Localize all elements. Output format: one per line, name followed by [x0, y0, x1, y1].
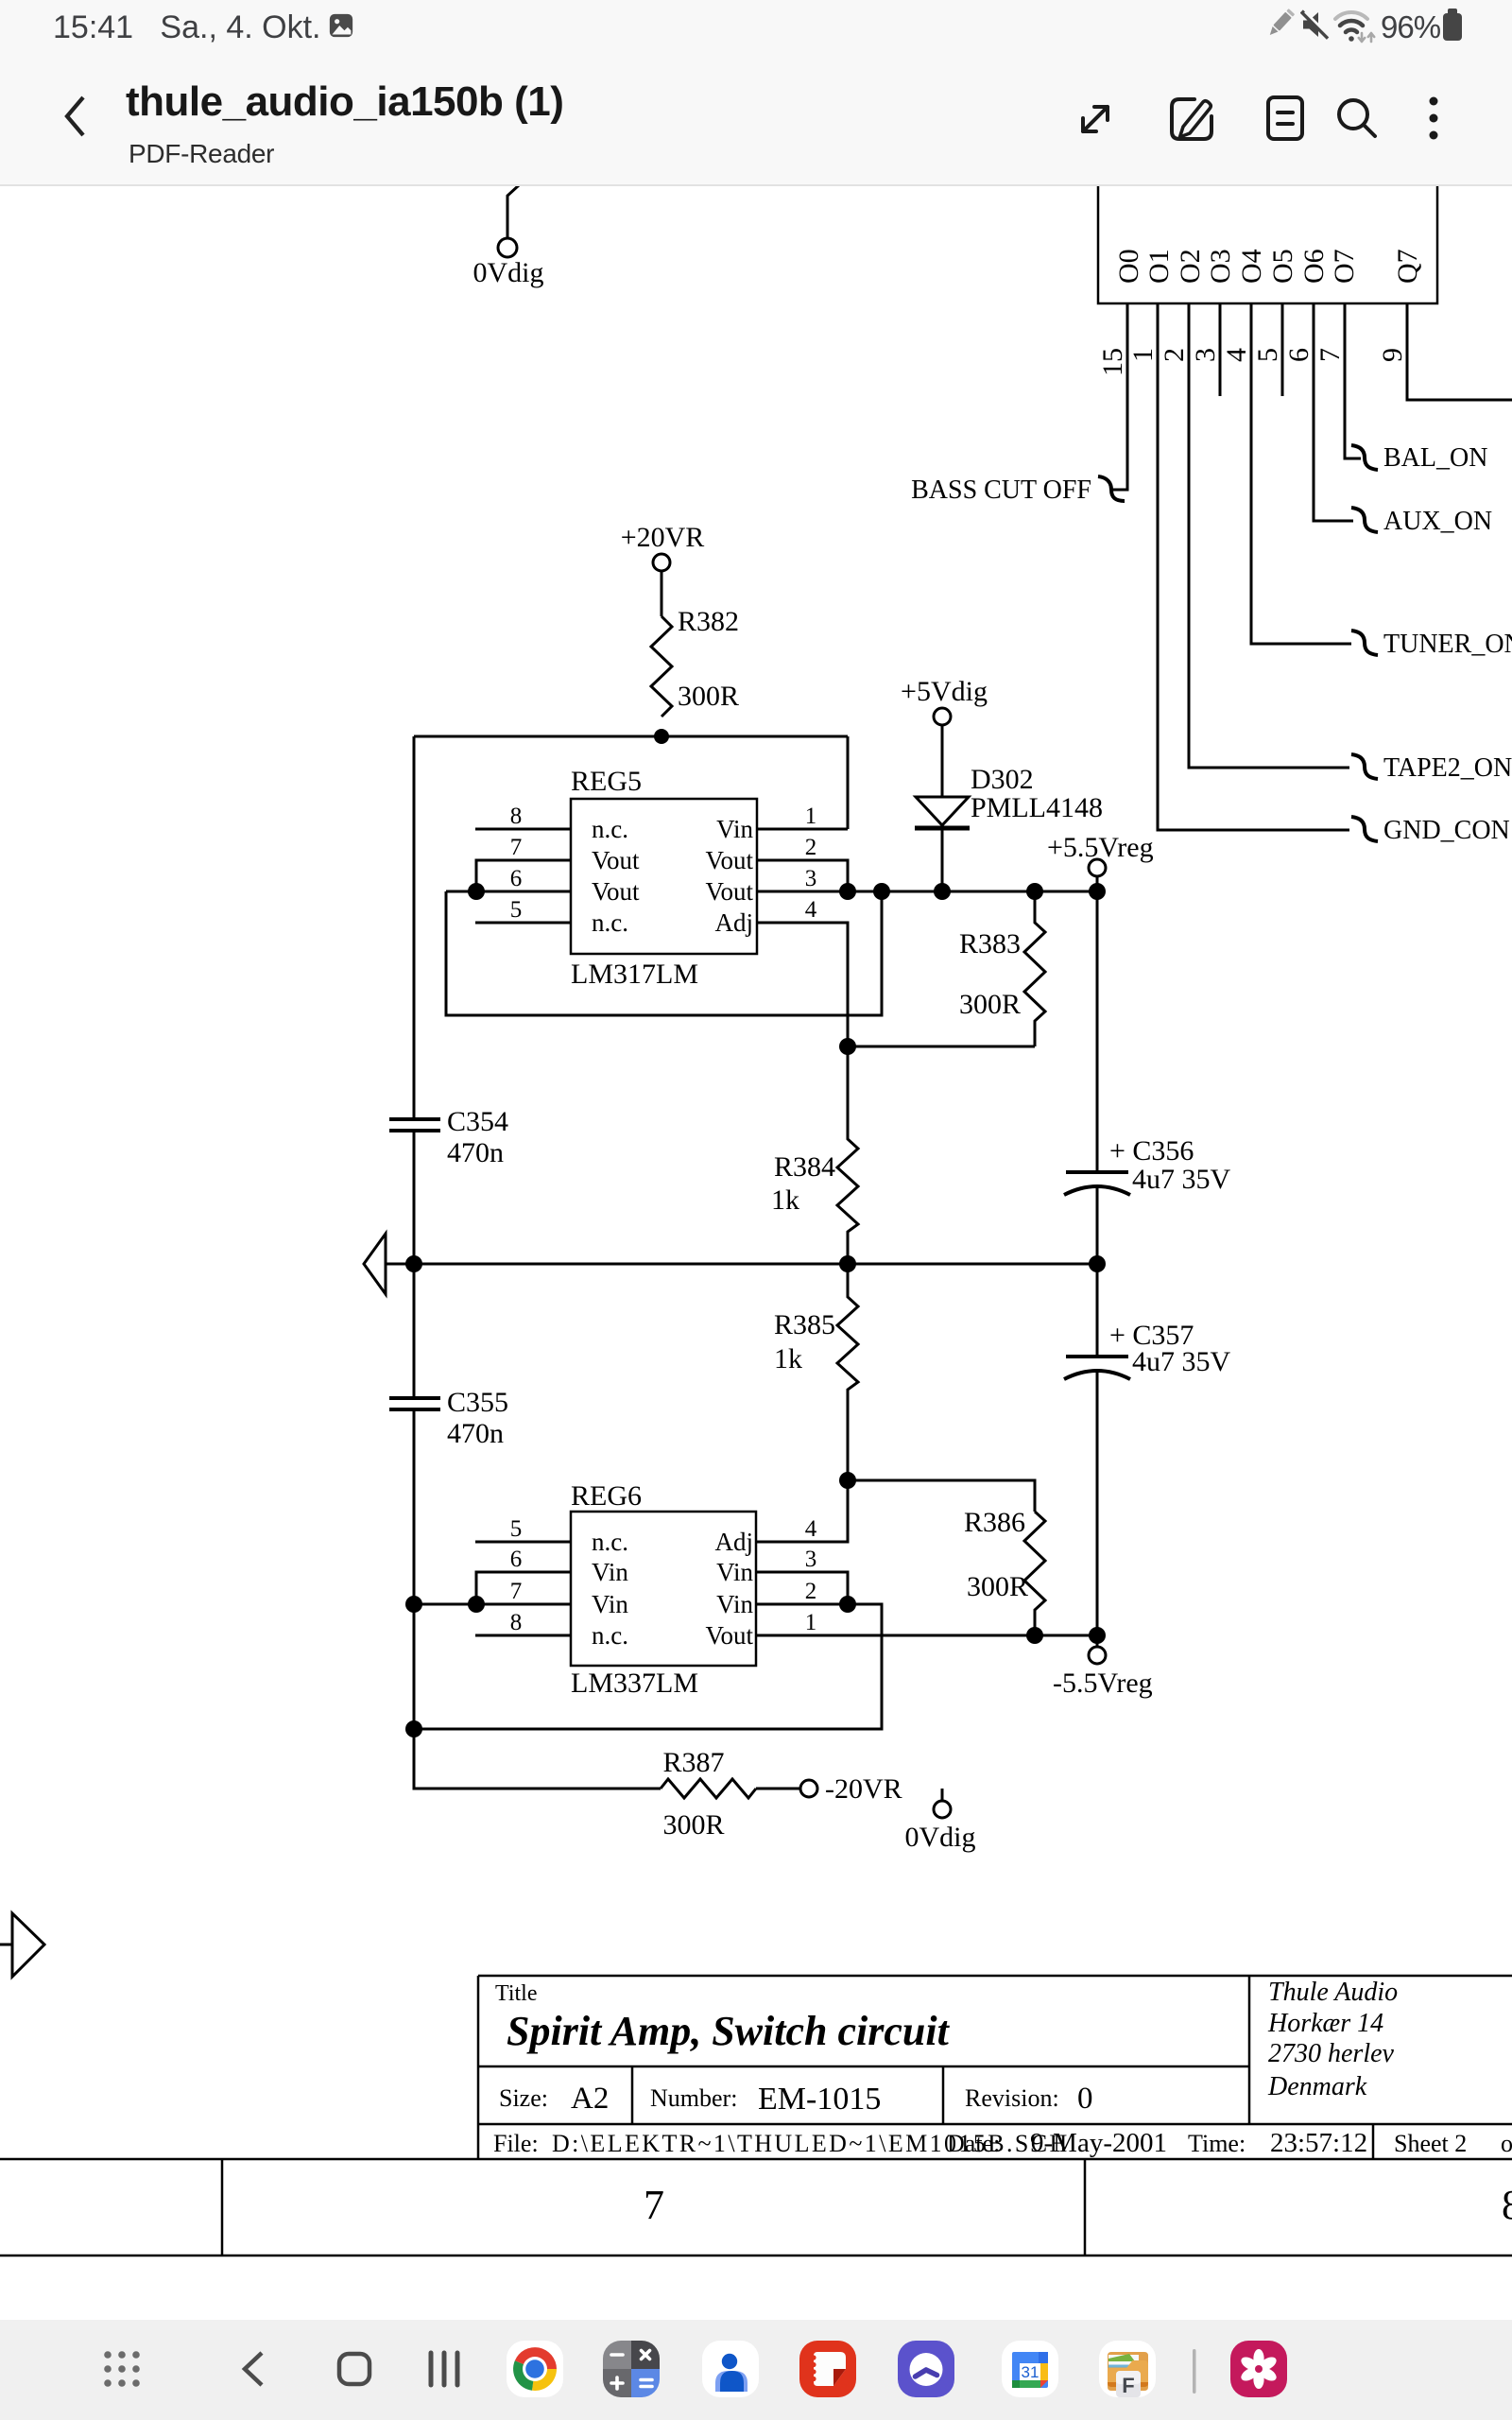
REG5 pin7 wire	[476, 860, 571, 891]
wire Q7 pin9	[1407, 303, 1512, 400]
svg-text:R384: R384	[774, 1151, 835, 1183]
label C356	[1109, 1135, 1231, 1195]
svg-text:D302: D302	[971, 764, 1034, 795]
svg-text:F: F	[1122, 2374, 1134, 2397]
svg-text:R383: R383	[959, 928, 1021, 959]
terminal +5Vdig	[934, 708, 951, 797]
svg-text:5: 5	[510, 1516, 523, 1542]
squiggle BASS CUT OFF	[1098, 476, 1125, 501]
squiggle AUX_ON	[1351, 508, 1378, 532]
nav home	[339, 2354, 369, 2384]
label R382	[678, 606, 739, 712]
terminal -20VR	[756, 1780, 817, 1797]
back chevron	[55, 90, 96, 143]
document icon	[1268, 97, 1302, 139]
resistor R384 1k	[837, 1046, 858, 1264]
ground bus	[405, 1255, 1106, 1272]
svg-text:Horkær 14: Horkær 14	[1267, 2009, 1383, 2038]
svg-text:31: 31	[1022, 2363, 1039, 2381]
svg-text:4u7 35V: 4u7 35V	[1132, 1164, 1231, 1195]
IC REG5 box	[571, 799, 757, 954]
svg-text:2: 2	[805, 835, 817, 860]
search icon	[1339, 100, 1375, 136]
app Contacts	[702, 2341, 759, 2397]
svg-text:300R: 300R	[959, 989, 1021, 1020]
terminal 0Vdig (bottom)	[934, 1789, 951, 1818]
company address	[1267, 1978, 1398, 2101]
app My Files	[1099, 2341, 1156, 2397]
REG5 pin1 Vin stub	[757, 828, 848, 831]
svg-text:Vin: Vin	[592, 1590, 628, 1618]
svg-text:BASS CUT OFF: BASS CUT OFF	[911, 475, 1091, 505]
capacitor C357 4u7 35V	[1064, 1357, 1130, 1635]
REG6 pin7 wire	[414, 1603, 571, 1606]
svg-text:n.c.: n.c.	[592, 1528, 628, 1556]
svg-text:+20VR: +20VR	[621, 522, 705, 553]
squiggle BAL_ON	[1351, 445, 1378, 470]
label C354	[447, 1106, 508, 1168]
svg-text:7: 7	[1314, 348, 1346, 362]
label C355	[447, 1387, 508, 1449]
svg-text:0Vdig: 0Vdig	[473, 257, 544, 288]
svg-text:1: 1	[805, 804, 817, 829]
svg-text:O3: O3	[1205, 249, 1236, 284]
svg-text:0Vdig: 0Vdig	[905, 1822, 976, 1853]
svg-text:A2: A2	[571, 2082, 609, 2116]
svg-text:LM337LM: LM337LM	[571, 1668, 698, 1699]
svg-text:Thule Audio: Thule Audio	[1268, 1978, 1398, 2007]
svg-text:Time:: Time:	[1188, 2130, 1246, 2157]
wire left rail lower	[413, 1409, 416, 1789]
status wifi icon	[1332, 7, 1376, 46]
node REG6 Adj junction	[839, 1472, 1035, 1512]
squiggle TUNER_ON	[1351, 631, 1378, 655]
svg-text:470n: 470n	[447, 1137, 504, 1168]
separator	[1193, 2349, 1196, 2394]
svg-text:3: 3	[1190, 348, 1221, 362]
app drawer dots	[104, 2351, 140, 2387]
svg-text:Adj: Adj	[715, 908, 754, 937]
svg-text:Vout: Vout	[592, 846, 640, 874]
terminal 0Vdig (top)	[498, 185, 519, 257]
svg-text:9-May-2001: 9-May-2001	[1030, 2128, 1167, 2158]
wire +20V to Vin pin1	[847, 736, 850, 829]
svg-text:1: 1	[805, 1610, 817, 1635]
svg-text:9: 9	[1377, 348, 1408, 362]
svg-text:1k: 1k	[774, 1343, 802, 1374]
svg-text:-20VR: -20VR	[825, 1773, 902, 1805]
svg-text:R385: R385	[774, 1309, 835, 1340]
svg-text:5: 5	[510, 897, 523, 923]
app Calculator	[603, 2341, 660, 2397]
svg-text:Vout: Vout	[705, 1621, 753, 1650]
app Samsung Internet	[898, 2341, 954, 2397]
wire O3 pin3 stub	[1219, 303, 1222, 396]
status battery icon	[1441, 9, 1464, 43]
svg-text:2730 herlev: 2730 herlev	[1268, 2039, 1395, 2068]
pin labels O0-O7 Q7	[1113, 249, 1423, 284]
svg-text:Vout: Vout	[705, 877, 753, 906]
svg-text:0: 0	[1077, 2082, 1093, 2116]
REG5 pin5 stub	[475, 922, 571, 925]
label D302 PMLL4148	[971, 764, 1103, 823]
pin numbers 15 1-7 9	[1097, 348, 1408, 376]
svg-text:R386: R386	[964, 1507, 1025, 1538]
REG6 pin4 Adj wire	[757, 1480, 848, 1542]
wire +5.5V rail down	[1096, 891, 1099, 1172]
REG5 pin numbers	[510, 804, 817, 923]
svg-text:1k: 1k	[771, 1184, 799, 1216]
svg-text:TUNER_ON: TUNER_ON	[1383, 630, 1512, 659]
app Google Calendar	[1002, 2341, 1058, 2397]
svg-text:O7: O7	[1329, 249, 1360, 284]
REG6 pin numbers	[510, 1516, 817, 1635]
REG6 pin3 Vin wire	[757, 1572, 848, 1604]
svg-text:O0: O0	[1113, 249, 1144, 284]
label R384	[771, 1151, 835, 1216]
REG5 pin2 Vout wire	[757, 860, 848, 891]
node +20V bus	[414, 729, 848, 744]
svg-text:4: 4	[805, 1516, 817, 1542]
svg-text:8: 8	[510, 1610, 523, 1635]
svg-text:PMLL4148: PMLL4148	[971, 792, 1103, 823]
svg-text:Date:: Date:	[947, 2130, 1000, 2157]
svg-text:4: 4	[805, 897, 817, 923]
svg-text:7: 7	[510, 835, 523, 860]
capacitor C354 470n	[389, 1119, 440, 1131]
status pen icon	[1263, 9, 1296, 41]
svg-text:EM-1015: EM-1015	[758, 2082, 881, 2117]
terminal +5.5Vreg	[1089, 859, 1106, 891]
svg-text:Number:: Number:	[650, 2084, 737, 2112]
diode D302 PMLL4148	[915, 797, 970, 891]
resistor R386 300R	[1024, 1512, 1045, 1635]
svg-text:7: 7	[644, 2182, 664, 2228]
REG6 pin1 Vout wire	[757, 1627, 1106, 1644]
svg-text:TAPE2_ON: TAPE2_ON	[1383, 753, 1512, 783]
label R387	[662, 1747, 724, 1841]
REG5 pin8 stub	[475, 828, 571, 831]
header action icons	[1068, 90, 1465, 147]
svg-text:R382: R382	[678, 606, 739, 637]
wire O2 pin2	[1189, 303, 1349, 768]
app Gallery	[1230, 2341, 1287, 2397]
label C357	[1109, 1320, 1231, 1377]
nav recents	[431, 2353, 457, 2385]
IC U3 box	[1098, 142, 1437, 303]
ground arrow	[364, 1234, 414, 1294]
resistor R387 300R	[661, 1779, 756, 1798]
svg-text:C355: C355	[447, 1387, 508, 1418]
svg-text:LM317LM: LM317LM	[571, 959, 698, 990]
svg-text:Vin: Vin	[716, 1590, 753, 1618]
svg-text:8: 8	[1502, 2182, 1512, 2228]
svg-text:File:: File:	[493, 2130, 539, 2157]
svg-text:Vout: Vout	[592, 877, 640, 906]
capacitor C356 4u7 35V	[1064, 1172, 1130, 1264]
title block text	[493, 1978, 1512, 2228]
squiggle GND_CON	[1351, 817, 1378, 841]
svg-text:3: 3	[805, 866, 817, 891]
net arrow bottom-left	[0, 1913, 44, 1977]
svg-text:300R: 300R	[662, 1809, 724, 1841]
svg-text:O6: O6	[1298, 249, 1330, 284]
title block frame	[0, 1976, 1512, 2256]
svg-text:7: 7	[510, 1579, 523, 1604]
squiggle TAPE2_ON	[1351, 754, 1378, 779]
wire -5.5V rail	[1096, 1264, 1099, 1357]
svg-text:O4: O4	[1236, 249, 1267, 284]
svg-text:Vout: Vout	[705, 846, 753, 874]
svg-text:R387: R387	[662, 1747, 724, 1778]
wire O0 pin15	[1111, 303, 1127, 490]
svg-text:n.c.: n.c.	[592, 815, 628, 843]
svg-text:Vin: Vin	[592, 1558, 628, 1586]
svg-text:23:57:12: 23:57:12	[1270, 2128, 1367, 2158]
label R385	[774, 1309, 835, 1374]
REG5 pin names	[592, 815, 753, 937]
app Chrome	[507, 2341, 563, 2397]
REG6 pin names	[592, 1528, 753, 1650]
svg-text:+ C356: + C356	[1109, 1135, 1194, 1167]
svg-text:6: 6	[510, 1547, 523, 1572]
REG6 pin6 wire	[476, 1572, 571, 1604]
wire left rail mid	[413, 1131, 416, 1398]
svg-text:Vin: Vin	[716, 815, 753, 843]
node REG5 Vout left	[468, 883, 485, 900]
svg-text:2: 2	[1159, 348, 1190, 362]
REG5 pin4 Adj wire	[757, 923, 848, 1046]
wire to R387	[414, 1729, 661, 1789]
node Adj junction	[839, 1038, 1035, 1055]
svg-text:O2: O2	[1175, 249, 1206, 284]
wire REG5 feedback loop	[446, 891, 882, 1015]
svg-text:+5Vdig: +5Vdig	[901, 676, 988, 707]
svg-text:6: 6	[510, 866, 523, 891]
wire O7 pin7	[1345, 303, 1361, 458]
wire O4 pin4	[1251, 303, 1351, 644]
svg-text:Sheet 2: Sheet 2	[1394, 2130, 1467, 2157]
terminal -5.5Vreg	[1089, 1635, 1106, 1664]
svg-text:+5.5Vreg: +5.5Vreg	[1047, 832, 1154, 863]
svg-text:O5: O5	[1267, 249, 1298, 284]
svg-text:n.c.: n.c.	[592, 908, 628, 937]
svg-text:15: 15	[1097, 348, 1128, 376]
svg-text:8: 8	[510, 804, 523, 829]
svg-text:GND_CON: GND_CON	[1383, 816, 1510, 845]
resistor R385 1k	[837, 1264, 858, 1480]
svg-text:O1: O1	[1143, 249, 1175, 284]
svg-text:Vin: Vin	[716, 1558, 753, 1586]
node REG6 Vin left	[405, 1596, 485, 1613]
wire O5 pin5 stub	[1281, 303, 1284, 396]
IC REG6 box	[571, 1512, 756, 1666]
resistor R383 300R	[1024, 891, 1045, 1046]
svg-text:4u7 35V: 4u7 35V	[1132, 1346, 1231, 1377]
expand icon	[1083, 107, 1108, 131]
app Samsung Notes	[799, 2341, 856, 2397]
svg-text:Adj: Adj	[715, 1528, 754, 1556]
svg-text:4: 4	[1221, 348, 1252, 362]
status mute icon	[1300, 9, 1331, 40]
nav back	[245, 2353, 262, 2385]
svg-text:of: of	[1501, 2130, 1512, 2157]
wire O1 pin1	[1158, 303, 1349, 830]
svg-text:Spirit Amp, Switch circuit: Spirit Amp, Switch circuit	[507, 2008, 951, 2054]
svg-text:5: 5	[1252, 348, 1283, 362]
svg-text:6: 6	[1283, 348, 1314, 362]
REG5 pin6 wire	[446, 890, 571, 893]
wire O6 pin6	[1314, 303, 1353, 521]
svg-text:3: 3	[805, 1547, 817, 1572]
+5.5V output bus	[757, 890, 1097, 893]
terminal +20VR	[653, 554, 670, 616]
svg-text:2: 2	[805, 1579, 817, 1604]
label R386	[964, 1507, 1028, 1602]
svg-text:Title: Title	[495, 1981, 537, 2006]
svg-text:C354: C354	[447, 1106, 508, 1137]
svg-text:Size:: Size:	[499, 2084, 548, 2112]
REG6 pin5 stub	[475, 1541, 571, 1544]
svg-text:1: 1	[1127, 348, 1159, 362]
svg-text:REG6: REG6	[571, 1480, 642, 1512]
svg-text:Revision:: Revision:	[965, 2084, 1059, 2112]
label R383	[959, 928, 1021, 1020]
svg-text:300R: 300R	[678, 681, 739, 712]
REG6 pin8 stub	[475, 1634, 571, 1637]
capacitor C355 470n	[389, 1398, 440, 1409]
edit icon	[1172, 99, 1211, 139]
wire left rail upper	[413, 736, 416, 1119]
resistor R382 300R	[651, 616, 672, 717]
svg-text:Q7: Q7	[1392, 249, 1423, 284]
more icon	[1430, 97, 1438, 140]
svg-text:470n: 470n	[447, 1418, 504, 1449]
svg-text:Denmark: Denmark	[1267, 2072, 1367, 2101]
REG6 pin2 Vin wire	[405, 1596, 882, 1737]
svg-text:REG5: REG5	[571, 766, 642, 797]
status photo icon	[329, 13, 353, 38]
svg-text:-5.5Vreg: -5.5Vreg	[1053, 1668, 1153, 1699]
svg-text:AUX_ON: AUX_ON	[1383, 507, 1492, 536]
svg-text:300R: 300R	[967, 1571, 1028, 1602]
node bus junctions	[839, 883, 1106, 900]
svg-text:BAL_ON: BAL_ON	[1383, 443, 1487, 473]
svg-text:n.c.: n.c.	[592, 1621, 628, 1650]
